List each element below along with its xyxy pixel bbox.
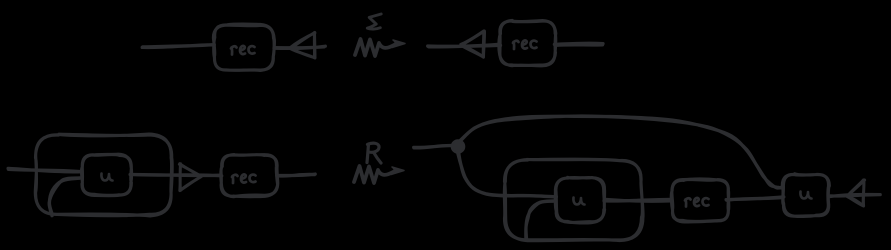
long feedback wire over the top to final u box (459, 116, 783, 188)
squiggly rewrite arrow S (355, 39, 405, 56)
box rec (bottom-left) (221, 155, 278, 197)
open triangle arrowhead pointing left (top-right) (461, 31, 485, 57)
label u (final box) (800, 192, 811, 199)
big rounded container box (bottom-left) (35, 134, 172, 216)
label u (bottom-left box) (101, 174, 112, 181)
final box u (bottom-right) (782, 174, 829, 217)
label rec (top-right box) (513, 40, 537, 49)
box rec (top-left) (213, 24, 274, 70)
label u (bottom-right container box) (573, 198, 584, 205)
wire: top-left input into rec box (142, 45, 214, 48)
wire: from top-left rec box through arrowhead (274, 46, 325, 48)
wire: u box to rec through right-pointing triangle (130, 174, 222, 175)
open triangle arrowhead pointing left (far right) (847, 180, 865, 206)
label rec (bottom-left box) (232, 174, 256, 183)
small box u (bottom-left) (81, 154, 131, 195)
wire: junction dot down into container and u box (457, 151, 556, 197)
label rec (bottom-right box) (685, 198, 709, 207)
big rounded container box (bottom-right) (504, 159, 643, 241)
wire: u box to rec box (bottom-right) (604, 199, 672, 201)
box rec (top-right) (499, 20, 556, 65)
wire: top-right output (554, 43, 603, 45)
wire: final u box output through arrowhead (829, 194, 881, 196)
feedback curve from u input down to container bottom (bottom-left) (49, 178, 80, 216)
open triangle arrowhead pointing left (top-left) (290, 33, 316, 59)
open triangle arrowhead pointing right (bottom-left) (179, 164, 201, 191)
wire: input to junction dot (414, 146, 454, 148)
wire: bottom-left output (277, 174, 315, 176)
wire: top-right into arrowhead and rec box (428, 44, 501, 47)
small box u (bottom-right container) (555, 177, 604, 223)
label R above rewrite squiggle (367, 143, 381, 163)
wire: rec box to final u box (726, 197, 784, 200)
label rec (top-left box) (231, 46, 255, 55)
squiggly rewrite arrow R (354, 166, 404, 183)
feedback curve from u input down to container bottom (bottom-right) (526, 201, 553, 239)
label S above rewrite squiggle (367, 14, 381, 29)
wire: bottom-left input into u box (8, 168, 81, 171)
junction dot (452, 140, 465, 153)
box rec (bottom-right) (671, 179, 729, 222)
